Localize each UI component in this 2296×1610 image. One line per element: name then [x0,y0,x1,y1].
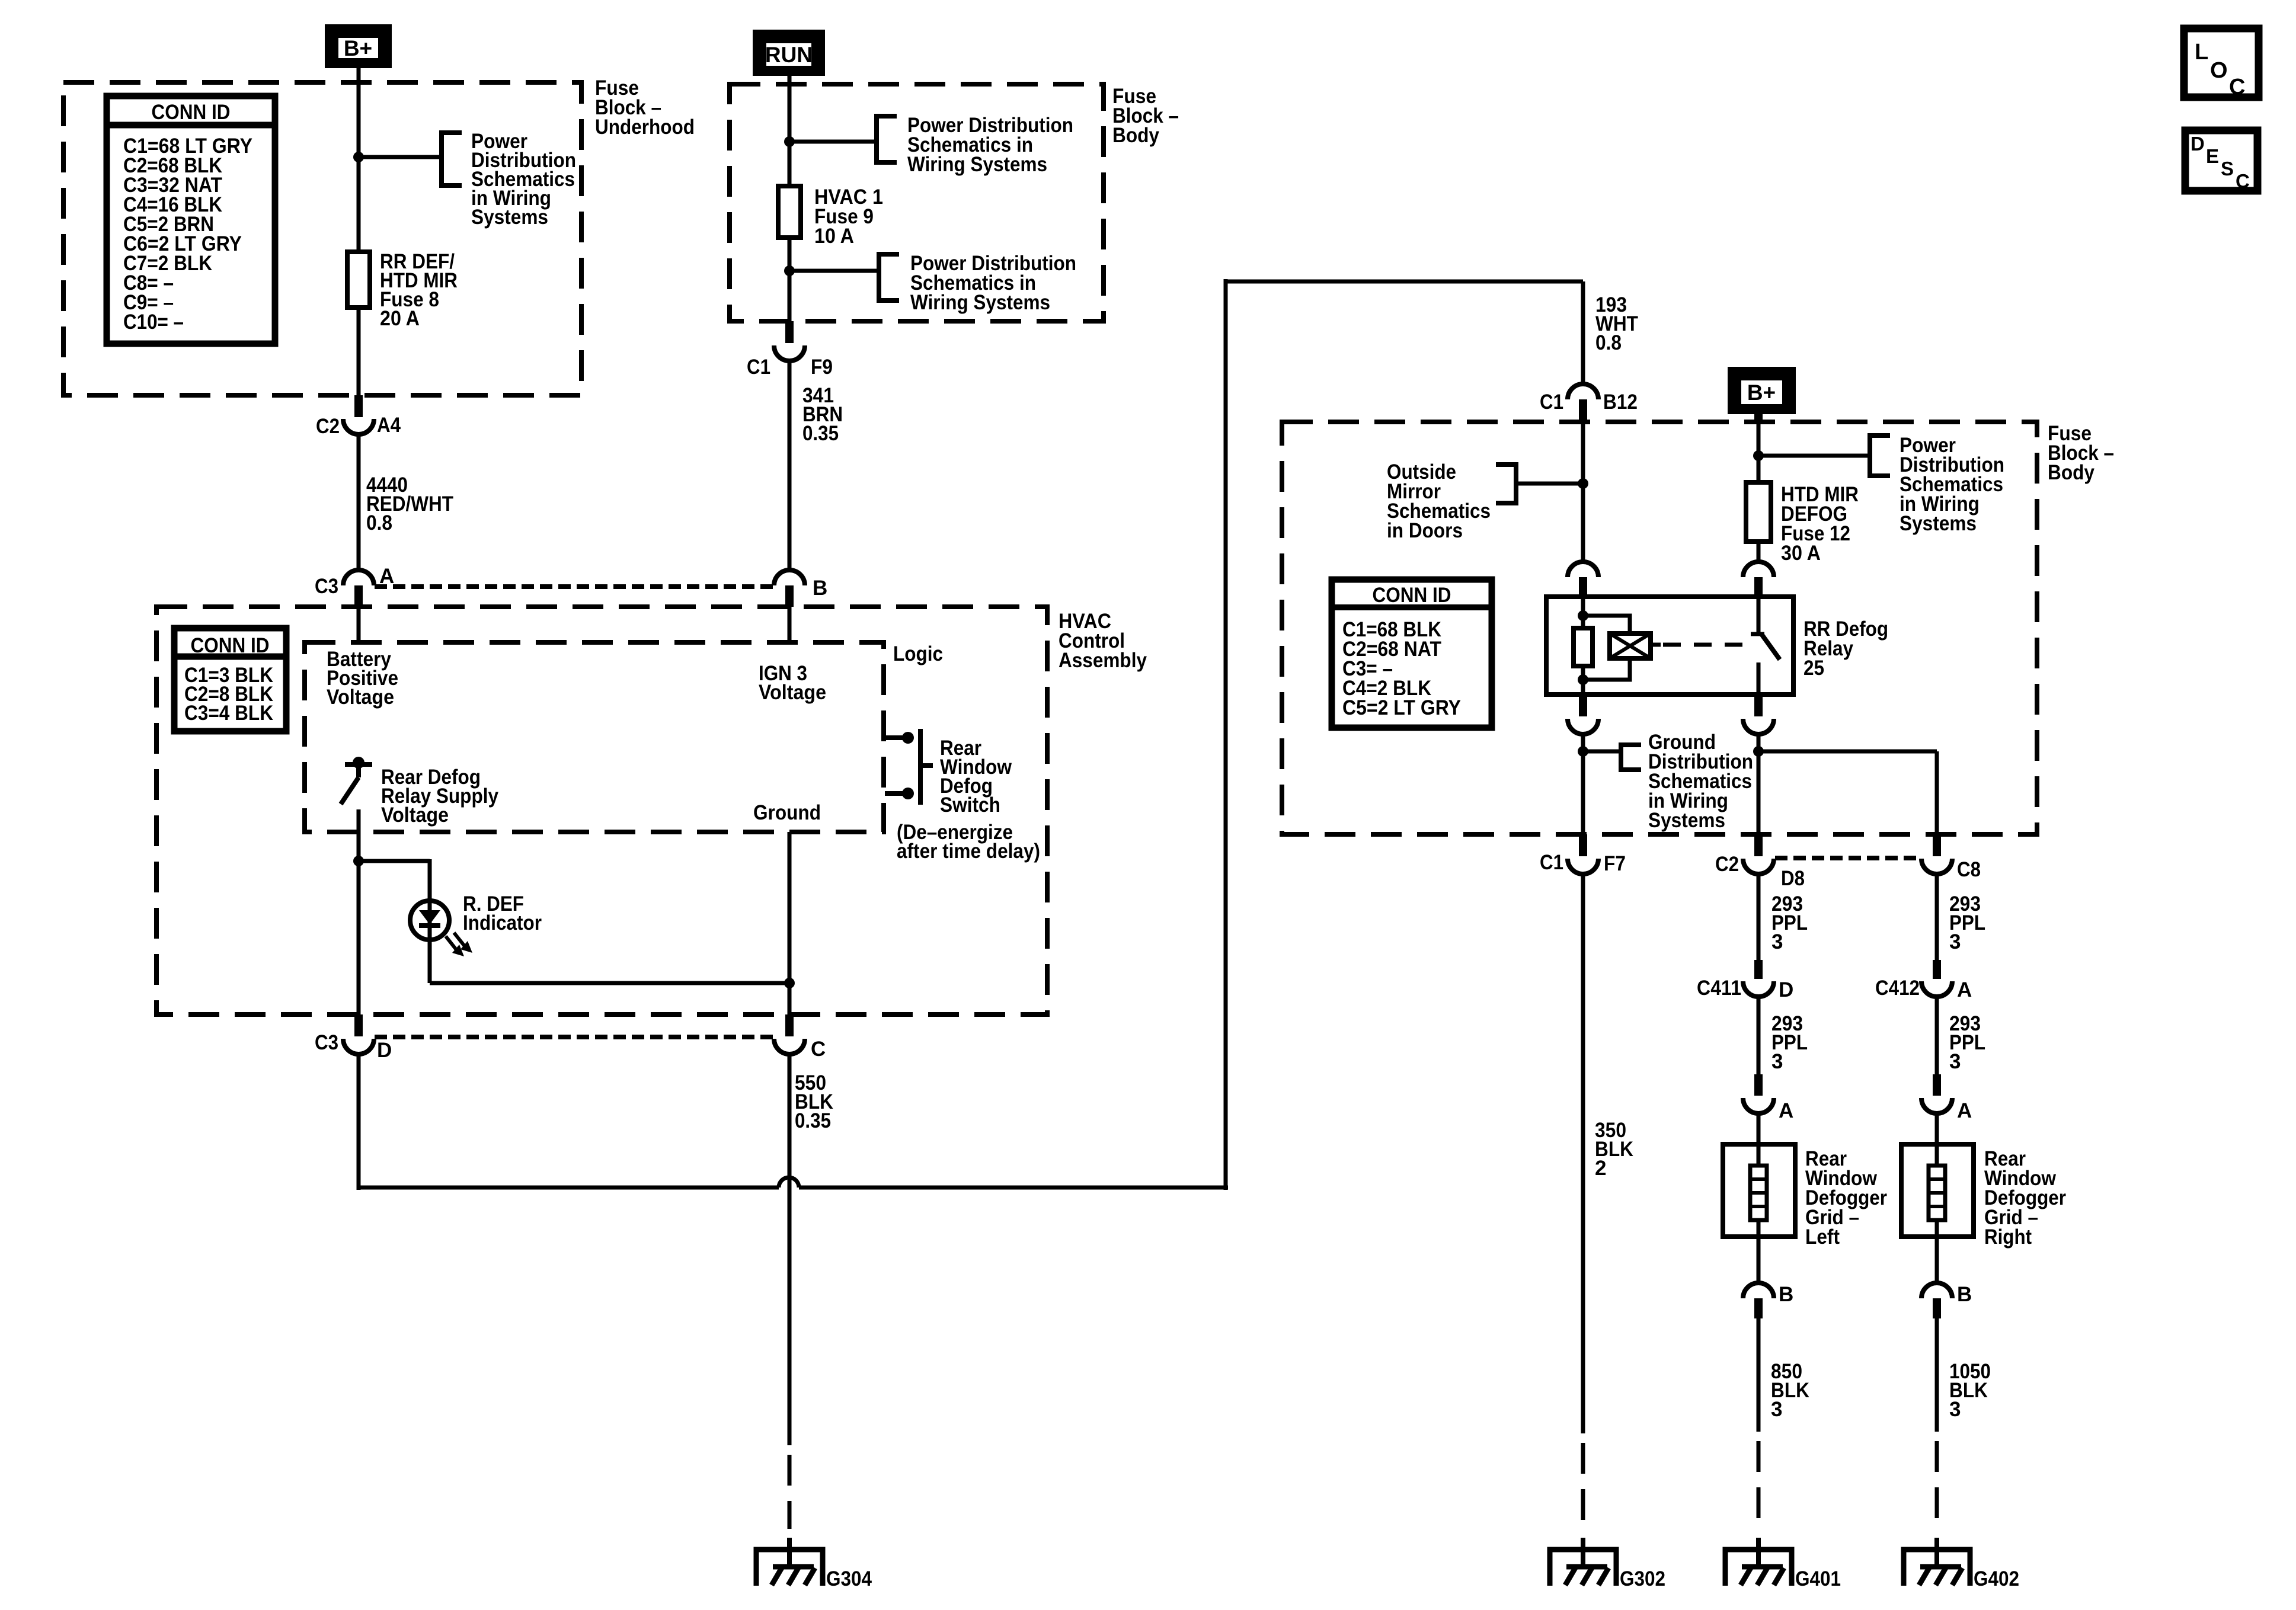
connector C2 pin A4 [354,395,363,417]
svg-text:Right: Right [1984,1225,2032,1249]
svg-text:G302: G302 [1620,1567,1665,1590]
connector pin B (grid left) [1757,1237,1761,1283]
svg-text:S: S [2221,158,2234,180]
fuse block body dashed outline (top) [730,84,1104,321]
svg-text:C3=4 BLK: C3=4 BLK [184,702,273,725]
svg-text:Assembly: Assembly [1059,649,1147,672]
wire relay output [1757,734,1761,837]
wire 850 BLK 3 to G401 [1757,1318,1761,1432]
dotted connector tie line D8 to C8 [1775,856,1920,860]
svg-text:Systems: Systems [1900,512,1977,535]
HVAC logic inner dashed box [305,642,884,832]
svg-text:C: C [2229,75,2245,100]
wire tap to power distribution (upper) [789,140,877,144]
connector C3 pin D [354,1014,363,1036]
power distribution reference symbol [442,133,462,185]
connector C2 pin D8 [1754,834,1763,856]
wire IGN 3 voltage input [788,607,792,642]
power distribution reference symbol (lower) [879,254,899,300]
LOC legend box [2184,28,2259,97]
svg-text:C2: C2 [1715,853,1739,876]
wire fuse 12 to relay [1757,542,1761,562]
HVAC control assembly dashed outline [156,607,1047,1014]
svg-text:0.35: 0.35 [802,422,839,445]
svg-text:F9: F9 [811,356,833,379]
svg-text:C1: C1 [1540,851,1563,874]
svg-text:2: 2 [1595,1157,1606,1180]
node: LED branch junction [353,856,364,866]
fuse F12 HTD MIR DEFOG 30A [1746,482,1771,542]
connector C411 pin D [1754,960,1763,979]
svg-text:0.8: 0.8 [366,511,392,534]
svg-text:C2: C2 [316,415,340,438]
svg-text:10 A: 10 A [814,225,854,248]
svg-text:C: C [2236,170,2250,192]
svg-text:after time delay): after time delay) [897,840,1040,863]
fuse F9 HVAC 1 10A [778,186,801,238]
svg-text:Systems: Systems [1648,809,1725,832]
wire LED return [428,940,432,983]
ground G302 [1581,1538,1585,1567]
relay coil winding [1610,633,1651,658]
wire D output down [357,1054,361,1190]
wire 193 WHT 0.8 [1581,281,1585,384]
connector pin A (grid right) [1933,1074,1941,1096]
wire B+ to fuse 8 [357,68,361,252]
svg-text:20 A: 20 A [380,307,420,330]
svg-text:G401: G401 [1795,1567,1841,1590]
svg-text:Left: Left [1805,1225,1840,1249]
svg-text:Systems: Systems [471,206,548,229]
svg-text:Voltage: Voltage [327,686,394,709]
svg-text:30 A: 30 A [1781,542,1821,565]
svg-text:C1: C1 [1540,391,1563,414]
relay connector pins (bottom) [1579,694,1587,716]
wire 293 PPL 3 (upper right) [1935,874,1939,960]
svg-text:Ground: Ground [753,801,821,824]
svg-text:C412: C412 [1875,977,1920,1000]
wire ground output [788,832,792,1014]
node: ground distribution tap [1578,746,1588,757]
fuse block body dashed outline (right) [1282,422,2037,834]
wire battery positive voltage input [357,607,361,642]
svg-text:C3: C3 [315,575,338,598]
node: lower feed junction [784,265,795,276]
svg-text:B: B [1957,1283,1972,1306]
connector C412 pin A [1933,960,1941,979]
wire tap to power distribution (body) [1758,454,1870,458]
svg-text:0.35: 0.35 [795,1109,831,1132]
LED R. DEF indicator [410,901,449,940]
wire fuse 9 down [788,238,792,321]
node: LED return to ground wire [784,978,795,988]
connector pin B (grid right) [1935,1237,1939,1283]
svg-text:Voltage: Voltage [759,681,826,704]
power distribution reference symbol (upper) [877,116,897,162]
wire long run to right circuit [357,1186,779,1190]
svg-text:Switch: Switch [940,793,1000,817]
connector table CONN ID (HVAC) [174,628,286,731]
svg-text:O: O [2210,58,2228,83]
svg-text:3: 3 [1949,1050,1961,1073]
svg-text:C: C [811,1038,826,1061]
wire tap to power distribution [359,155,442,159]
wire 293 PPL 3 (lower right) [1935,997,1939,1074]
node: right grid branch [1753,746,1764,757]
relay actuation dashed link [1663,643,1748,647]
connector C3 pin A (HVAC input) [343,570,374,585]
svg-text:A: A [1957,978,1972,1001]
node: B+ feed junction [353,152,364,162]
svg-text:D8: D8 [1781,867,1805,890]
svg-text:CONN ID: CONN ID [152,101,231,124]
rear window defogger grid right box [1901,1144,1974,1237]
connector pin C [785,1014,794,1036]
svg-text:D: D [2191,133,2205,155]
wire tap to power distribution (lower) [789,269,879,273]
wire to R. DEF indicator [359,859,430,863]
relay switch contact [1757,597,1761,633]
svg-text:Logic: Logic [893,642,943,665]
RR defog relay 25 box [1546,597,1793,694]
dotted connector tie line C3/D to C [375,1035,773,1039]
svg-text:25: 25 [1803,657,1824,680]
svg-text:D: D [377,1039,392,1062]
power terminal B+ (body) [1728,367,1796,414]
connector C1 pin F9 [785,321,794,343]
rear window defog switch contacts [885,735,903,740]
svg-text:CONN ID: CONN ID [1373,584,1451,607]
wire 4440 RED/WHT 0.8 [357,434,361,569]
svg-text:G304: G304 [826,1567,872,1590]
svg-text:Indicator: Indicator [463,911,542,934]
relay coil resistor [1574,628,1593,666]
wire B+ to fuse 12 [1754,414,1763,423]
wire 350 BLK 2 to G302 [1581,874,1585,1433]
wire relay supply output [357,809,361,1014]
svg-text:B+: B+ [1747,380,1776,405]
DESC legend box [2185,130,2257,191]
relay connector pins (top) [1568,562,1598,577]
fuse block underhood dashed outline [63,82,581,395]
svg-text:Wiring Systems: Wiring Systems [910,291,1050,314]
rear window defogger grid left box [1723,1144,1795,1237]
connector C1 pin F7 [1579,834,1587,856]
svg-text:A4: A4 [377,414,401,437]
svg-text:C8: C8 [1957,858,1981,881]
svg-text:F7: F7 [1604,852,1626,875]
svg-text:0.8: 0.8 [1595,331,1622,354]
wire 293 PPL 3 (upper left) [1757,874,1761,960]
ground G402 [1934,1538,1939,1567]
wire relay coil to C1/F7 [1581,734,1585,837]
node: outside mirror tap [1578,478,1588,489]
svg-text:B: B [1779,1283,1793,1306]
wire 550 BLK 0.35 to G304 [788,1054,792,1445]
svg-text:Wiring Systems: Wiring Systems [907,153,1047,176]
node: RUN feed junction [784,136,795,147]
dotted connector tie line C3 to B [375,584,774,589]
svg-text:C10= –: C10= – [123,311,184,334]
svg-text:D: D [1779,978,1793,1001]
fuse F8 RR DEF/HTD MIR 20A [347,252,370,308]
svg-text:G402: G402 [1974,1567,2019,1590]
svg-text:E: E [2206,145,2219,167]
svg-text:B: B [813,577,827,600]
svg-text:C3: C3 [315,1031,338,1054]
ground distribution reference symbol [1621,745,1641,770]
connector table CONN ID (fuse block body) [1332,580,1492,728]
svg-text:Voltage: Voltage [381,804,449,827]
svg-text:L: L [2195,40,2208,65]
svg-text:CONN ID: CONN ID [191,634,270,657]
svg-text:Body: Body [2048,461,2094,484]
outside mirror reference symbol [1496,465,1516,503]
svg-text:C1: C1 [747,356,770,379]
power terminal B+ (underhood) [325,24,392,68]
power terminal RUN [753,30,825,76]
connector pin B (HVAC input) [774,570,805,585]
ground G401 [1756,1538,1761,1567]
svg-text:A: A [1957,1099,1972,1122]
svg-text:3: 3 [1771,930,1783,953]
wire B12 to relay coil [1581,422,1585,562]
wire 341 BRN 0.35 [788,361,792,569]
svg-text:3: 3 [1771,1398,1782,1421]
connector pin C8 [1933,834,1941,856]
connector pin A (grid left) [1754,1074,1763,1096]
wire fuse 8 to connector C2 [357,308,361,395]
svg-text:3: 3 [1949,930,1961,953]
wire RUN to fuse 9 [788,76,792,186]
svg-text:A: A [1779,1099,1793,1122]
svg-text:B12: B12 [1603,391,1638,414]
wire tap outside mirror [1516,482,1583,486]
svg-text:in Doors: in Doors [1387,519,1463,542]
wire hop over 550 BLK [779,1177,799,1188]
svg-text:Body: Body [1112,124,1159,147]
wire 1050 BLK 3 to G402 [1935,1318,1939,1432]
svg-text:3: 3 [1771,1050,1783,1073]
power distribution reference symbol (body) [1870,436,1890,476]
wire 293 PPL 3 (lower left) [1757,997,1761,1074]
rear defog relay supply voltage contact [345,762,372,767]
svg-text:RUN: RUN [765,43,813,67]
connector C1 pin B12 [1568,384,1598,399]
connector table CONN ID (underhood) [107,96,275,344]
svg-text:C5=2 LT GRY: C5=2 LT GRY [1342,696,1461,719]
node: B+ body junction [1753,450,1764,461]
svg-text:C411: C411 [1697,977,1741,1000]
svg-text:Underhood: Underhood [595,116,695,139]
svg-text:3: 3 [1949,1398,1961,1421]
ground G304 [787,1538,792,1567]
svg-text:B+: B+ [344,36,372,60]
relay coil branch [1581,597,1585,694]
